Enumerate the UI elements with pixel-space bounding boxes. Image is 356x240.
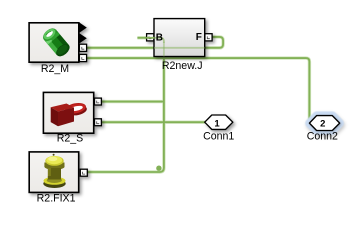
wire segment B stub over port	[146, 37, 154, 39]
label R2new.J	[162, 60, 203, 72]
svg-text:1: 1	[214, 118, 220, 129]
label 1	[214, 118, 220, 129]
wire from R2_S port2 to Conn1	[101, 121, 205, 123]
icon body R2_M (green link)	[41, 26, 72, 59]
icon body R2_S (red link)	[51, 101, 88, 126]
block R2.FIX1	[29, 152, 87, 193]
block R2new.J	[147, 19, 212, 57]
svg-text:2: 2	[320, 119, 325, 130]
triangle port 2	[79, 33, 87, 44]
port square P1	[95, 98, 102, 105]
block R2_S	[43, 92, 101, 133]
label Conn2	[307, 130, 338, 142]
svg-text:B: B	[156, 32, 163, 43]
triangle port 1	[79, 22, 87, 33]
port square	[80, 169, 87, 176]
block R2_M	[29, 22, 87, 62]
wire R2_M port1 to F loop: halo	[87, 37, 224, 48]
label 2	[320, 119, 325, 130]
port square B	[147, 34, 154, 41]
wire from R2new.J B port down to junction and R2.FIX1	[87, 38, 164, 172]
wire B-junction-FIX1: halo	[87, 38, 164, 172]
port square P2	[79, 54, 86, 61]
label F	[196, 32, 202, 43]
wire segment P1-F under block	[154, 47, 205, 49]
svg-text:R2_S: R2_S	[57, 133, 84, 145]
selection halo Conn2	[309, 116, 339, 131]
svg-text:Conn2: Conn2	[307, 130, 338, 142]
wire segment B inside block	[154, 38, 164, 57]
port square F	[205, 34, 212, 41]
svg-text:Conn1: Conn1	[203, 130, 234, 142]
wire from R2_M port2 to Conn2	[87, 58, 310, 121]
wire from R2_S port1 to vertical line	[101, 101, 163, 103]
svg-text:R2_M: R2_M	[41, 63, 69, 75]
svg-text:F: F	[196, 32, 202, 43]
port square P2	[95, 119, 102, 126]
svg-text:R2.FIX1: R2.FIX1	[37, 192, 76, 204]
svg-text:R2new.J: R2new.J	[162, 60, 203, 72]
wire junction dot	[156, 166, 161, 171]
label R2_M	[41, 63, 69, 75]
wire R2_S port2 to Conn1: halo	[101, 120, 205, 123]
label Conn1	[203, 130, 234, 142]
label B	[156, 32, 163, 43]
label R2_S	[57, 133, 84, 145]
port Conn1 (hexagon)	[205, 115, 233, 129]
port Conn2 (hexagon)	[309, 116, 339, 131]
wire R2_S port1: halo	[101, 100, 163, 103]
label R2.FIX1	[37, 192, 76, 204]
wire R2_M port2 to Conn2: halo	[87, 58, 310, 121]
wire from R2_M port1 toward R2new.J F port	[87, 37, 224, 48]
icon body R2.FIX1 (yellow post)	[43, 154, 65, 188]
port square P1	[79, 44, 86, 51]
